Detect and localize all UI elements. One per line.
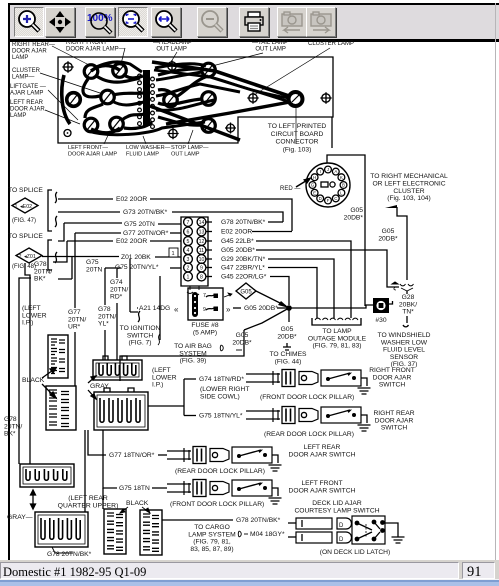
connector gray lower big — [94, 392, 148, 430]
node diagonal from fuse wire — [277, 307, 289, 309]
svg-text:LEFT FRONTDOOR AJAR SWITCH: LEFT FRONTDOOR AJAR SWITCH — [289, 480, 356, 494]
pcb trace bottom-left — [85, 104, 103, 118]
svg-text:TO CHIMES(FIG. 44): TO CHIMES(FIG. 44) — [269, 351, 307, 365]
svg-text:G05: G05 — [240, 290, 252, 296]
wire M04 18GY label — [244, 533, 248, 535]
svg-text:E: E — [313, 190, 316, 195]
svg-text:G: G — [311, 183, 315, 188]
svg-text:BLACK: BLACK — [22, 377, 45, 384]
mounting hole right — [322, 94, 330, 102]
svg-text:Z01 20BK: Z01 20BK — [121, 254, 151, 261]
wire drops to black connectors — [85, 430, 103, 512]
svg-text:L: L — [340, 190, 343, 195]
pcb via column — [138, 74, 142, 78]
lamp socket cluster-right — [202, 119, 216, 133]
wire E02 20OR row2 — [53, 241, 113, 262]
right rear door ajar switch assembly — [256, 411, 280, 419]
lamp socket right-front-door-ajar — [113, 64, 127, 78]
svg-text:G75 18TN: G75 18TN — [119, 485, 150, 492]
svg-text:—TAIL LAMP OUT LAMP: —TAIL LAMP OUT LAMP — [252, 40, 288, 52]
svg-text:D: D — [339, 523, 344, 529]
svg-text:G77 20TN/OR*: G77 20TN/OR* — [123, 230, 169, 237]
small hole bottom-left — [64, 130, 71, 137]
airbag bracket — [220, 345, 223, 351]
lamp socket left-rear-door-ajar — [84, 118, 98, 132]
mounting hole bottom-low — [227, 124, 235, 132]
wire G74 20TN/RD drop — [116, 269, 118, 360]
wire to washer sensor — [403, 316, 409, 327]
deck D terminal upper — [337, 518, 352, 529]
wire G75 row — [184, 415, 196, 417]
svg-text:D: D — [319, 196, 322, 201]
svg-text:TO RIGHT MECHANICALOR LEFT ELE: TO RIGHT MECHANICALOR LEFT ELECTRONICCLU… — [370, 173, 448, 202]
label G77 20TN/UR — [66, 308, 84, 332]
svg-text:(LEFT REARQUARTER UPPER): (LEFT REARQUARTER UPPER) — [58, 495, 119, 509]
splice symbol E02 — [12, 198, 38, 213]
svg-text:G45 22OR/LG*: G45 22OR/LG* — [221, 274, 267, 281]
wire G77 20TN drop — [74, 233, 76, 386]
label G78 20TN/YL — [96, 305, 115, 330]
pcb trace spine — [143, 70, 150, 126]
bottom blue strip — [495, 3, 496, 560]
left rear door ajar switch assembly — [167, 451, 191, 459]
pcb trace topleft pair — [91, 66, 120, 71]
svg-text:»: » — [226, 305, 231, 314]
connector bottom stubs — [187, 286, 199, 296]
ground row A — [358, 388, 371, 394]
svg-text:J: J — [327, 167, 329, 172]
svg-text:(FIG. 47): (FIG. 47) — [12, 218, 36, 224]
lamp socket cluster-left — [101, 90, 115, 104]
pin stub wires right side — [206, 221, 212, 223]
svg-text:LEFT REARDOOR AJARLAMP: LEFT REARDOOR AJARLAMP — [10, 100, 45, 119]
label G74 20TN/RD — [108, 278, 127, 303]
wire airbag squiggle — [158, 334, 160, 345]
svg-text:B: B — [342, 183, 345, 188]
wire G75 18TN row — [103, 430, 117, 488]
connector black upper (2-col pins) — [48, 335, 68, 378]
svg-text:GRAY—: GRAY— — [7, 514, 33, 521]
connector wide lower — [35, 512, 88, 547]
splice bracket 2 — [48, 240, 52, 270]
svg-text:G0520DB*: G0520DB* — [232, 332, 252, 346]
squiggle wire 2 — [55, 216, 57, 227]
wire G29 run — [268, 259, 334, 318]
svg-text:G75 18TN/YL*: G75 18TN/YL* — [199, 413, 243, 420]
pcb trace diagonal to pad — [152, 62, 289, 96]
svg-text:◂Z01: ◂Z01 — [24, 254, 36, 260]
wire G77 20TN/OR* — [75, 232, 121, 234]
svg-text:K: K — [340, 175, 343, 180]
outage terminal curls — [315, 318, 328, 320]
svg-text:LEFT FRONT—DOOR AJAR LAMP: LEFT FRONT—DOOR AJAR LAMP — [68, 145, 117, 157]
svg-text:TO AIR BAGSYSTEM(FIG. 39): TO AIR BAGSYSTEM(FIG. 39) — [174, 343, 212, 365]
lamp socket tail-lamp-out — [202, 63, 216, 77]
deck D terminal lower — [337, 532, 352, 543]
splice diamond G05 — [236, 283, 256, 299]
svg-text:9: 9 — [200, 265, 203, 271]
svg-text:#30: #30 — [375, 317, 386, 324]
wire G45 OR/LG run — [270, 277, 289, 306]
ground row C — [269, 465, 282, 471]
svg-text:G7820TN/BK*: G7820TN/BK* — [34, 261, 52, 283]
pcb connector pad — [289, 92, 303, 106]
svg-text:A21 14DG: A21 14DG — [139, 305, 170, 312]
lamp socket headlamp-out — [164, 93, 178, 107]
connector tall black 2 — [140, 510, 162, 555]
mounting hole bottom-mid — [169, 129, 177, 137]
svg-text:G47 22BR/YL*: G47 22BR/YL* — [221, 265, 265, 272]
ground row B — [358, 425, 371, 431]
svg-text:E02 20OR: E02 20OR — [116, 238, 147, 245]
deck lid connector upper — [288, 522, 296, 524]
svg-text:—HEADLAMP OUT LAMP: —HEADLAMP OUT LAMP — [153, 40, 192, 52]
red arrow — [296, 179, 309, 187]
connector cavity tag — [169, 248, 178, 257]
toolbar — [8, 3, 499, 42]
cargo bracket — [238, 531, 241, 537]
svg-text:G05 20DB*: G05 20DB* — [221, 247, 255, 254]
svg-text:DECK LID AJARCOURTESY LAMP SWI: DECK LID AJARCOURTESY LAMP SWITCH — [294, 500, 379, 514]
black arrows — [42, 368, 56, 378]
pcb right edge stub — [331, 117, 333, 148]
svg-text:11: 11 — [199, 248, 204, 254]
cluster wire half-arrow — [385, 205, 397, 208]
svg-text:CLUSTER LAMP: CLUSTER LAMP — [308, 41, 354, 47]
svg-text:TO WINDSHIELDWASHER LOWFLUID L: TO WINDSHIELDWASHER LOWFLUID LEVELSENSOR… — [377, 332, 430, 368]
svg-text:4: 4 — [187, 248, 190, 254]
pcb trace right group — [158, 69, 202, 75]
svg-text:TO SPLICE: TO SPLICE — [8, 187, 43, 194]
node horizontal to #30 — [289, 305, 373, 308]
wire G78 to corner — [268, 221, 283, 223]
svg-text:TO LEFT PRINTEDCIRCUIT BOARDCO: TO LEFT PRINTEDCIRCUIT BOARDCONNECTOR(Fi… — [268, 123, 327, 153]
svg-text:G0520DB*: G0520DB* — [277, 326, 297, 340]
wire E02 to corner — [252, 231, 292, 233]
fuse element — [192, 292, 198, 317]
wire G05 20DB* run — [256, 250, 399, 287]
inline connector arrow — [392, 282, 398, 284]
lamp socket low-washer — [110, 117, 124, 131]
mounting hole top-mid — [168, 62, 176, 70]
svg-text:G78 20TN/BK*: G78 20TN/BK* — [236, 517, 281, 524]
splice bracket 1 — [48, 190, 52, 231]
deck lid connector lower — [288, 536, 296, 538]
svg-text:2: 2 — [19, 254, 22, 260]
wire from round connector to G05 — [327, 155, 365, 306]
ground row D — [269, 498, 282, 504]
svg-text:6: 6 — [187, 229, 190, 235]
cluster wire — [397, 207, 407, 280]
diagonal down-left from node — [244, 308, 289, 330]
wire G75 20TN/YL* — [105, 267, 121, 269]
svg-text:◂E02: ◂E02 — [20, 204, 32, 210]
svg-text:STOP LAMP—OUT LAMP: STOP LAMP—OUT LAMP — [171, 145, 209, 157]
round connector pins — [325, 166, 332, 173]
svg-text:D: D — [339, 537, 344, 543]
connector gray upper — [93, 360, 142, 380]
svg-text:10: 10 — [199, 257, 205, 263]
svg-text:7: 7 — [203, 293, 206, 299]
svg-text:G29 20BK/TN*: G29 20BK/TN* — [221, 256, 266, 263]
fuse box outline — [188, 288, 223, 320]
wire into row B — [246, 411, 256, 419]
wire G05 right of airbag — [236, 349, 242, 351]
svg-text:RIGHT FRONTDOOR AJAR LAMP—: RIGHT FRONTDOOR AJAR LAMP— — [66, 40, 125, 52]
svg-text:7: 7 — [187, 220, 190, 226]
svg-text:13: 13 — [199, 229, 205, 235]
lamp socket right-rear-door-ajar — [84, 65, 98, 79]
svg-text:(LEFTLOWERI.P.): (LEFTLOWERI.P.) — [22, 305, 47, 327]
squiggle wire 3 — [55, 252, 57, 263]
squiggle wire 1 — [55, 192, 57, 203]
svg-text:F: F — [327, 198, 330, 203]
wire left drop 2 — [25, 263, 30, 464]
svg-text:(REAR DOOR LOCK PILLAR): (REAR DOOR LOCK PILLAR) — [175, 468, 265, 475]
node G05 junction — [286, 305, 292, 311]
svg-text:TO IGNITIONSWITCH(FIG. 7): TO IGNITIONSWITCH(FIG. 7) — [120, 325, 161, 347]
wire G75 20TN — [58, 223, 122, 241]
svg-text:E02 20OR: E02 20OR — [116, 196, 147, 203]
wire G78 20TN/BK to deck — [162, 519, 233, 521]
ignition squiggle — [130, 311, 140, 322]
wire gray connector to bracket — [148, 379, 184, 416]
svg-text:G45 22LB*: G45 22LB* — [221, 238, 254, 245]
svg-text:RIGHT FRONTDOOR AJARSWITCH: RIGHT FRONTDOOR AJARSWITCH — [369, 367, 415, 389]
gray connector top tabs — [103, 356, 127, 360]
diamond to node diagonal — [256, 291, 286, 306]
svg-text:G0520DB*: G0520DB* — [378, 228, 398, 242]
svg-text:G74 18TN/RD*: G74 18TN/RD* — [199, 376, 244, 383]
svg-text:«: « — [174, 305, 179, 314]
svg-text:C: C — [334, 196, 337, 201]
gray lower top tabs — [104, 388, 134, 392]
double arrow between connectors — [31, 490, 36, 509]
wire Z01 20BK — [42, 256, 119, 258]
printed circuit board outline — [58, 57, 333, 143]
label G75 20TN vertical — [86, 274, 106, 291]
moved — [170, 267, 181, 269]
left front door ajar switch assembly — [167, 484, 191, 492]
svg-text:(LOWER RIGHTSIDE COWL): (LOWER RIGHTSIDE COWL) — [200, 386, 249, 400]
svg-text:9: 9 — [203, 307, 206, 313]
pcb trace mid-left — [113, 93, 143, 95]
node drop to chimes — [288, 308, 290, 322]
wire ignition drop — [129, 259, 131, 312]
svg-text:3: 3 — [187, 257, 190, 263]
svg-text:M04 18GY*: M04 18GY* — [250, 531, 285, 538]
svg-text:RIGHT REARDOOR AJARSWITCH: RIGHT REARDOOR AJARSWITCH — [373, 410, 414, 432]
chimes ground stub — [283, 343, 291, 350]
svg-text:G78 20TN/BK*: G78 20TN/BK* — [47, 551, 92, 558]
svg-text:TO LAMPOUTAGE MODULE(FIG. 79,: TO LAMPOUTAGE MODULE(FIG. 79, 81, 83) — [308, 328, 367, 350]
svg-text:8: 8 — [200, 274, 203, 280]
svg-text:H: H — [313, 175, 316, 180]
lamp outage bracket — [312, 318, 361, 325]
svg-text:LEFT REARDOOR AJAR SWITCH: LEFT REARDOOR AJAR SWITCH — [289, 444, 356, 458]
connector tall black 1 — [104, 509, 126, 554]
label G78 20TN/BK bottom — [52, 547, 73, 553]
connector C200 outline — [181, 217, 208, 286]
wire G73 20TN/BK* — [58, 211, 120, 213]
wire E02 20OR row1 — [58, 198, 113, 200]
svg-text:(LEFTLOWERI.P.): (LEFTLOWERI.P.) — [152, 367, 177, 389]
deck switch ground — [385, 523, 398, 537]
wire G47 run — [268, 268, 317, 319]
svg-text:G78 20TN/BK*: G78 20TN/BK* — [221, 219, 266, 226]
svg-text:(REAR DOOR LOCK PILLAR): (REAR DOOR LOCK PILLAR) — [264, 431, 354, 438]
svg-text:(FIG. 48): (FIG. 48) — [12, 264, 36, 270]
connector #30 — [373, 298, 389, 313]
label leader lines — [40, 46, 330, 144]
svg-text:A: A — [334, 169, 337, 174]
splice symbol Z01 — [16, 248, 42, 263]
black bottom arrows — [120, 507, 128, 513]
svg-text:TO CARGOLAMP SYSTEM(FIG. 79, 8: TO CARGOLAMP SYSTEM(FIG. 79, 81,83, 85, … — [188, 524, 236, 553]
svg-text:2: 2 — [187, 265, 190, 271]
connector left rear quarter upper (wide) — [20, 464, 74, 487]
svg-text:1: 1 — [187, 274, 190, 280]
svg-text:G7520TN: G7520TN — [86, 259, 103, 273]
deck switch body — [352, 516, 385, 544]
status bar — [0, 560, 499, 586]
svg-text:G0520DB*: G0520DB* — [344, 207, 364, 221]
svg-text:5: 5 — [187, 239, 190, 245]
wire G78 20TN/YL drop — [104, 268, 106, 360]
svg-text:(FRONT DOOR LOCK PILLAR): (FRONT DOOR LOCK PILLAR) — [170, 501, 264, 508]
svg-text:1: 1 — [15, 204, 18, 210]
svg-text:G73 20TN/BK*: G73 20TN/BK* — [123, 209, 168, 216]
wire E02 bracket drop — [19, 257, 72, 464]
wire A21 link — [137, 307, 138, 309]
wire into row A — [246, 374, 256, 382]
connector C200 pins — [184, 218, 193, 227]
svg-text:CLUSTERLAMP—: CLUSTERLAMP— — [12, 68, 41, 80]
mounting hole top-left — [64, 63, 72, 71]
connector black lower big — [46, 386, 76, 430]
wire to left lower connectors — [120, 330, 244, 381]
round connector center key — [321, 182, 328, 187]
mounting hole mid — [249, 94, 257, 102]
svg-text:G77 18TN/OR*: G77 18TN/OR* — [109, 452, 155, 459]
wire G45 22LB* run — [256, 241, 351, 318]
svg-text:LOW WASHER—FLUID LAMP: LOW WASHER—FLUID LAMP — [126, 145, 171, 157]
svg-text:BLACK: BLACK — [126, 500, 149, 507]
svg-text:1: 1 — [172, 251, 175, 257]
lamp socket liftgate-ajar — [67, 93, 81, 107]
svg-text:LIFTGATE —AJAR LAMP: LIFTGATE —AJAR LAMP — [10, 84, 46, 96]
lamp socket stop-lamp-out — [202, 92, 216, 106]
wire G74 row — [184, 378, 196, 380]
svg-text:TO SPLICE: TO SPLICE — [8, 233, 43, 240]
svg-text:12: 12 — [199, 239, 205, 245]
inline connector halves — [400, 284, 414, 286]
gray arrows — [88, 376, 96, 383]
left window border — [8, 3, 10, 560]
wire airbag drop — [159, 276, 161, 340]
svg-text:14: 14 — [199, 220, 205, 226]
svg-text:G75 20TN/YL*: G75 20TN/YL* — [115, 264, 159, 271]
svg-text:G75 20TN: G75 20TN — [124, 221, 155, 228]
svg-text:G2820BK/TN*: G2820BK/TN* — [399, 294, 417, 316]
svg-text:I: I — [320, 169, 321, 174]
svg-text:G05 20DB*: G05 20DB* — [244, 305, 278, 312]
buttons placed directly on body for simpler absolute coords — [14, 7, 44, 37]
round printed circuit board connector — [306, 163, 350, 207]
svg-text:(ON DECK LID LATCH): (ON DECK LID LATCH) — [320, 549, 390, 556]
svg-text:RIGHT REAR—DOOR AJARLAMP: RIGHT REAR—DOOR AJARLAMP — [12, 42, 55, 61]
svg-text:FUSE #8(5 AMP): FUSE #8(5 AMP) — [191, 322, 218, 336]
svg-text:GRAY: GRAY — [90, 383, 109, 390]
wire G77 18TN row — [88, 430, 106, 455]
right front door ajar switch assembly — [256, 374, 280, 382]
svg-text:(FRONT DOOR LOCK PILLAR): (FRONT DOOR LOCK PILLAR) — [260, 394, 354, 401]
fuse exit arrow — [224, 293, 232, 297]
svg-text:E02 20OR: E02 20OR — [221, 229, 252, 236]
